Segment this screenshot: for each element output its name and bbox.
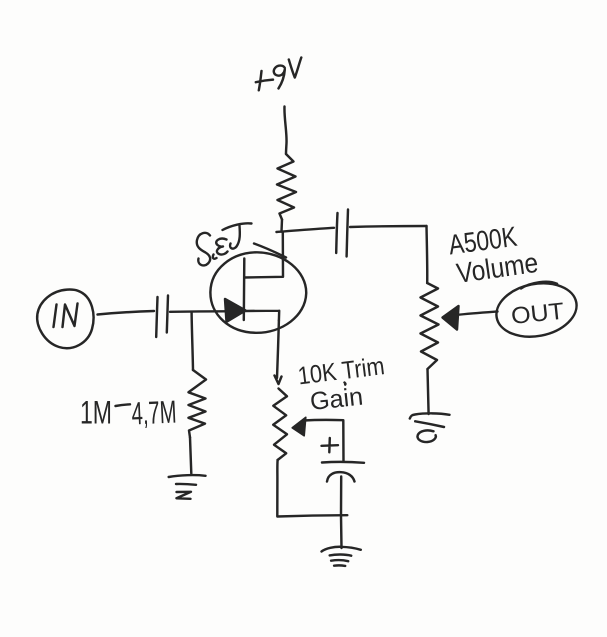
svg-text:Gain: Gain xyxy=(309,383,365,416)
wire: drain node to C2 (horizontal) xyxy=(277,228,335,232)
wiper arrow: OUT to volume pot xyxy=(456,312,498,316)
capacitor C1 (input coupling) left plate xyxy=(156,297,157,337)
svg-text:1M: 1M xyxy=(80,395,112,431)
Q1 channel bar xyxy=(243,259,246,321)
label IN xyxy=(54,305,57,328)
OUT port oval xyxy=(492,277,581,344)
ground (bottom, bypass) xyxy=(322,547,361,566)
wire: R1 to drain node xyxy=(280,220,283,232)
resistor R1 (drain resistor) xyxy=(277,154,296,220)
label pointer line xyxy=(254,244,286,258)
resistor R2 1M-4.7M (zigzag) xyxy=(189,370,207,437)
trimmer wiper arrow xyxy=(292,417,306,436)
C3 top plate xyxy=(322,461,364,464)
wire: C1 to gate node and into JFET gate xyxy=(170,310,225,313)
capacitor C2 right plate xyxy=(347,210,348,257)
capacitor C1 right plate xyxy=(167,296,168,333)
svg-text:OUT: OUT xyxy=(510,298,565,329)
IN port oval xyxy=(37,289,93,348)
ground (volume pot) xyxy=(410,413,450,442)
wire: gate node down to R2 xyxy=(192,313,193,371)
wire: trimmer bottom to bottom rail xyxy=(277,460,347,517)
label +9V xyxy=(256,58,301,91)
trimmer VR1 10K gain (zigzag) xyxy=(273,389,287,461)
Q1 drain lead inside xyxy=(244,232,283,278)
wire: R2 to ground xyxy=(190,437,191,473)
C3 bottom plate (curved) xyxy=(327,472,355,481)
wire: Q1 source down to trimmer (with hook) xyxy=(275,321,282,385)
wire: C2 to volume pot top corner xyxy=(350,226,427,227)
wire: corner down to pot xyxy=(425,226,428,283)
label JFET (cursive) xyxy=(197,223,252,265)
wire: IN to C1 xyxy=(98,311,155,315)
wire: C3 to bottom rail and down to ground xyxy=(340,477,343,549)
potentiometer VR2 A500K volume (zigzag) xyxy=(421,283,439,369)
Q1 gate arrow xyxy=(225,299,246,322)
transistor Q1 JFET body circle xyxy=(210,252,306,333)
ground (input bias) xyxy=(169,475,206,499)
capacitor C3 electrolytic: plus sign xyxy=(322,438,339,452)
capacitor C2 (output coupling) left plate xyxy=(336,213,337,253)
wire: wiper to C3 top xyxy=(304,420,344,462)
wire: volume pot to ground xyxy=(428,369,429,414)
stray pen dot xyxy=(343,383,346,385)
Q1 source lead inside xyxy=(245,311,279,321)
wire: +9V rail down to R1 xyxy=(284,107,286,155)
svg-text:4,7M: 4,7M xyxy=(131,394,178,432)
